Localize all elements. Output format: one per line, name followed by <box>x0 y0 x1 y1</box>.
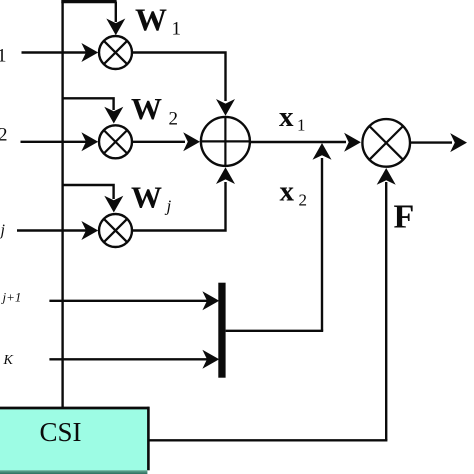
selector bar <box>218 283 225 378</box>
svg-text:j: j <box>165 197 172 216</box>
multiplier W1 circle <box>99 36 132 69</box>
multiplier W2 circle <box>99 125 132 158</box>
svg-text:j+1: j+1 <box>1 290 22 305</box>
svg-text:K: K <box>3 353 14 368</box>
svg-text:x: x <box>279 101 294 133</box>
svg-text:W: W <box>135 2 167 38</box>
svg-text:1: 1 <box>297 116 306 135</box>
wire: multiplier 1 output to summer top <box>133 53 226 102</box>
wire: branch down to multiplier 1 <box>115 2 117 22</box>
wire: branch down to multiplier j <box>63 185 114 199</box>
multiplier F circle <box>362 119 410 167</box>
svg-text:CSI: CSI <box>40 417 82 447</box>
CSI block <box>0 407 150 474</box>
wire: x2 vertical up into output line <box>321 158 323 331</box>
svg-text:x: x <box>280 176 295 208</box>
wire: input 1 <box>22 51 87 53</box>
svg-text:2: 2 <box>299 190 308 209</box>
svg-text:W: W <box>131 180 162 215</box>
wire: input j <box>17 229 86 231</box>
svg-text:1: 1 <box>0 46 7 67</box>
wire: F control vertical from CSI <box>385 182 387 440</box>
wire: input K <box>49 358 207 360</box>
wire: input 2 <box>21 141 87 143</box>
wire: branch down to multiplier 2 <box>63 98 114 110</box>
svg-text:j: j <box>0 222 6 239</box>
summer circle <box>201 117 250 166</box>
wire: multiplier j output to summer bottom <box>133 182 226 231</box>
wire: CSI output horizontal <box>149 439 387 441</box>
svg-text:1: 1 <box>172 19 182 40</box>
wire: input j+1 <box>49 300 207 302</box>
wire: summer output x1 <box>250 141 346 143</box>
multiplier Wj circle <box>99 214 132 247</box>
wire: multiplier 2 output to summer left <box>133 141 185 143</box>
wire: selector bar output to x2 <box>226 330 324 332</box>
wire: left feedback vertical <box>61 2 63 409</box>
wire: final output <box>411 141 452 143</box>
wire: top feedback horizontal <box>61 0 116 3</box>
svg-text:2: 2 <box>169 109 179 130</box>
svg-text:F: F <box>394 199 415 236</box>
svg-text:W: W <box>131 91 162 126</box>
svg-text:2: 2 <box>0 125 8 146</box>
